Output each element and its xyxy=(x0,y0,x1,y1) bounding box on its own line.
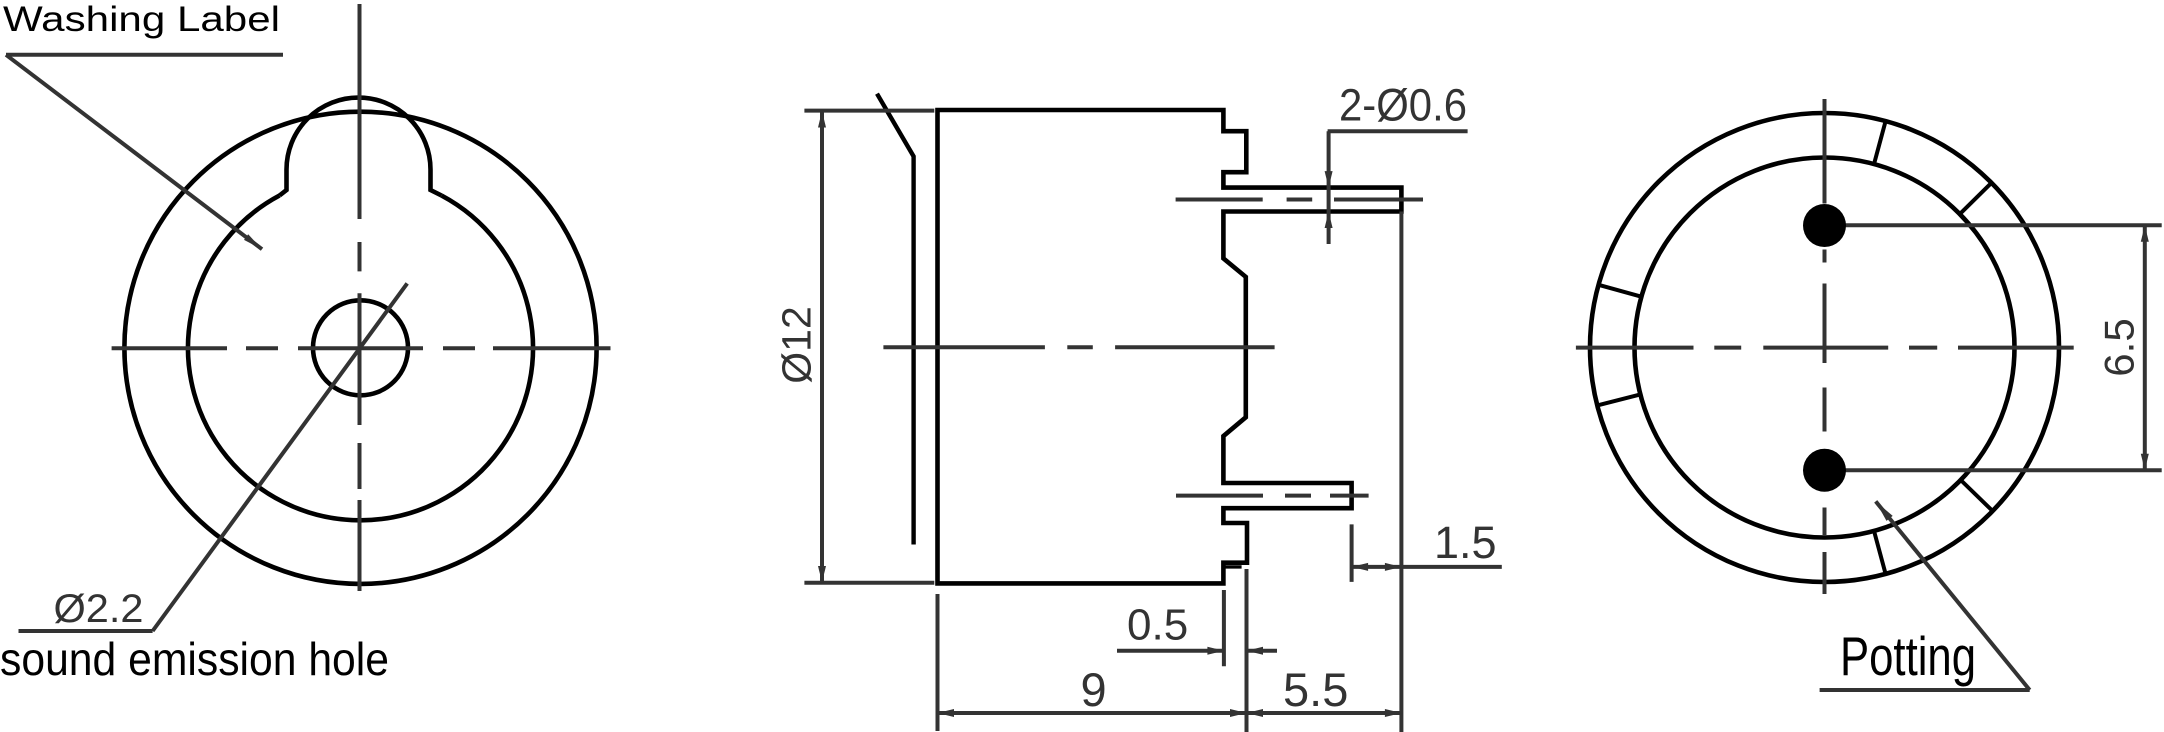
0.5 right extension line (long, shared with 9 and 5.5) xyxy=(1245,569,1249,732)
0.5 dimension line right tail xyxy=(1247,649,1278,653)
0.5 right arrowhead xyxy=(1247,647,1264,655)
0.5 left extension line xyxy=(1222,590,1226,666)
5.5 dimension line xyxy=(1247,711,1402,715)
dia 12 top arrowhead xyxy=(818,111,826,128)
lower pin dot xyxy=(1803,449,1846,492)
front view outer housing circle xyxy=(124,112,596,584)
svg-text:sound emission hole: sound emission hole xyxy=(0,633,389,685)
side view body outline with pins and pin seats xyxy=(938,110,1402,583)
back view outer circle xyxy=(1590,113,2059,582)
svg-text:1.5: 1.5 xyxy=(1434,517,1497,568)
washing label underline xyxy=(6,53,283,57)
9 left arrowhead xyxy=(938,709,955,717)
lower pin extension line xyxy=(1830,468,2162,472)
6.5 dimension line xyxy=(2143,225,2147,470)
svg-text:Potting: Potting xyxy=(1840,625,1976,687)
small step line under lower pin seat xyxy=(1225,565,1242,568)
back view inner circle xyxy=(1635,158,2015,538)
svg-text:0.5: 0.5 xyxy=(1127,601,1188,650)
dia 2.2 underline xyxy=(19,629,153,633)
svg-text:5.5: 5.5 xyxy=(1283,663,1348,716)
svg-text:9: 9 xyxy=(1081,663,1107,716)
washing label leader arrowhead xyxy=(244,234,262,249)
6.5 bottom arrowhead xyxy=(2141,454,2149,471)
washing label leader line xyxy=(6,55,262,249)
9 right arrowhead xyxy=(1230,709,1247,717)
long extension line from upper pin end xyxy=(1399,212,1403,732)
lower pin centerline xyxy=(1176,494,1369,498)
sound emission hole circle xyxy=(313,300,408,395)
9 left extension line xyxy=(936,594,940,731)
2-dia0.6 upper arrowhead xyxy=(1325,171,1333,188)
1.5 dimension line xyxy=(1352,565,1502,569)
2-dia0.6 lower arrowhead xyxy=(1325,212,1333,229)
dia 12 bottom arrowhead xyxy=(818,566,826,582)
front view inner face circle (arc with gap at washing-label bump) xyxy=(188,196,533,521)
front view horizontal centerline xyxy=(112,346,611,350)
front view vertical centerline xyxy=(358,4,362,591)
crimp tick at 166 deg xyxy=(1599,285,1642,297)
crimp tick at 76.5 deg xyxy=(1874,121,1886,164)
2-dia0.6 dimension vertical line xyxy=(1327,131,1331,244)
upper pin dot xyxy=(1803,204,1846,247)
9 dimension line xyxy=(938,711,1247,715)
6.5 top arrowhead xyxy=(2141,225,2149,242)
washing label bump outline xyxy=(280,98,442,196)
5.5 left arrowhead xyxy=(1247,709,1264,717)
side view horizontal centerline xyxy=(883,345,1274,349)
potting leader line xyxy=(1876,501,2030,690)
svg-text:Washing Label: Washing Label xyxy=(3,0,280,39)
dia 12 top extension line xyxy=(804,109,934,113)
potting underline xyxy=(1820,688,2030,692)
crimp tick at 194 deg xyxy=(1597,394,1640,405)
back view horizontal centerline xyxy=(1576,346,2074,350)
2-dia0.6 underline xyxy=(1328,129,1468,133)
back view vertical centerline xyxy=(1823,99,1827,594)
crimp tick at -44 deg xyxy=(1961,480,1993,511)
crimp tick at 45 deg xyxy=(1960,183,1992,214)
upper pin extension line xyxy=(1830,223,2162,227)
upper pin centerline xyxy=(1176,198,1423,202)
washing label sheet on side view (peeled top) xyxy=(877,94,914,545)
svg-text:6.5: 6.5 xyxy=(2096,318,2143,376)
svg-text:2-Ø0.6: 2-Ø0.6 xyxy=(1339,80,1467,131)
1.5 right arrowhead xyxy=(1385,563,1402,571)
dia 12 dimension line xyxy=(820,111,824,583)
1.5 left arrowhead xyxy=(1352,563,1369,571)
dia 2.2 leader line through hole xyxy=(153,283,408,631)
potting leader arrowhead xyxy=(1876,501,1893,521)
0.5 left arrowhead xyxy=(1207,647,1224,655)
svg-text:Ø12: Ø12 xyxy=(774,306,820,384)
crimp tick at -75 deg xyxy=(1874,531,1886,574)
svg-text:Ø2.2: Ø2.2 xyxy=(54,587,144,631)
dia 12 bottom extension line xyxy=(804,581,934,585)
5.5 right arrowhead xyxy=(1385,709,1402,717)
extension line below lower pin end xyxy=(1350,524,1354,582)
0.5 dimension line left tail xyxy=(1117,649,1224,653)
